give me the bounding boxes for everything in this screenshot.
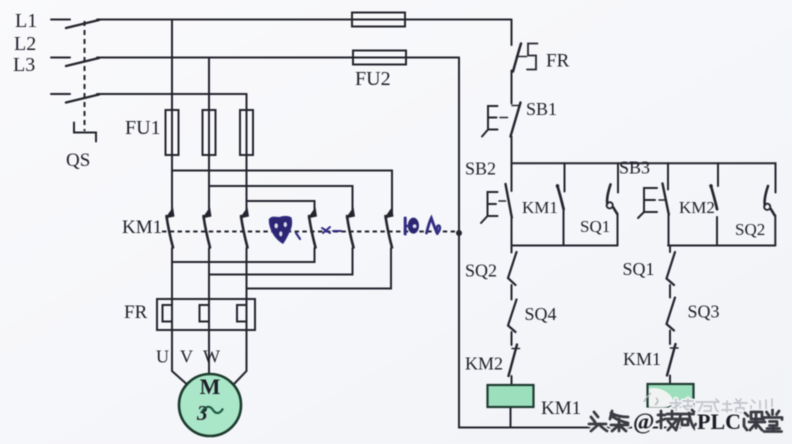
svg-text:SQ2: SQ2 xyxy=(465,261,497,281)
svg-text:SQ1: SQ1 xyxy=(623,259,655,279)
svg-text:SB2: SB2 xyxy=(465,159,496,179)
svg-text:SB1: SB1 xyxy=(526,99,557,119)
svg-text:KM2: KM2 xyxy=(679,198,715,217)
svg-text:QS: QS xyxy=(66,150,90,171)
svg-text:W: W xyxy=(203,347,220,367)
svg-text:SB3: SB3 xyxy=(619,158,650,178)
svg-text:3: 3 xyxy=(196,401,208,425)
svg-text:L2: L2 xyxy=(14,33,36,55)
svg-text:KM1: KM1 xyxy=(522,198,558,217)
svg-text:U: U xyxy=(156,347,169,367)
svg-text:SQ3: SQ3 xyxy=(688,302,720,322)
svg-text:M: M xyxy=(200,374,221,399)
svg-text:KM2: KM2 xyxy=(465,354,503,374)
svg-text:KM1: KM1 xyxy=(623,349,661,369)
svg-text:SQ4: SQ4 xyxy=(525,304,557,324)
svg-text:KM1: KM1 xyxy=(122,217,162,238)
svg-text:FU2: FU2 xyxy=(355,68,391,90)
svg-text:KM1: KM1 xyxy=(541,398,581,419)
svg-text:@: @ xyxy=(633,409,654,435)
svg-text:FR: FR xyxy=(546,51,570,72)
svg-text:FU1: FU1 xyxy=(125,117,161,139)
svg-text:FR: FR xyxy=(124,302,148,323)
svg-text:SQ2: SQ2 xyxy=(735,220,765,239)
svg-text:SQ1: SQ1 xyxy=(580,217,610,236)
svg-text:L3: L3 xyxy=(13,54,35,76)
svg-text:L1: L1 xyxy=(15,10,37,32)
svg-text:V: V xyxy=(180,347,193,367)
svg-text:PLC: PLC xyxy=(697,409,741,434)
